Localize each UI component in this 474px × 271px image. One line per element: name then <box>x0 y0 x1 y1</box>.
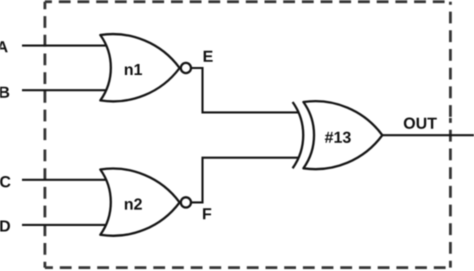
NOR gate n2 body <box>100 169 179 236</box>
wire E from n1 to xor <box>190 68 299 112</box>
XOR gate #13 body <box>303 101 382 169</box>
dashed boundary box left edge lower part <box>44 144 47 268</box>
wire D input <box>22 224 107 226</box>
wire B input <box>22 89 107 91</box>
NOR gate n1 inversion bubble <box>181 63 191 73</box>
dashed boundary box bottom edge <box>45 266 451 269</box>
dashed boundary box right edge lower part <box>449 118 452 268</box>
wire F from n2 to xor <box>190 158 299 203</box>
label n2 <box>125 198 142 209</box>
dashed boundary box right edge upper part <box>449 2 452 118</box>
label n1 <box>125 64 142 75</box>
label C <box>0 176 10 187</box>
label OUT <box>404 118 437 129</box>
wire A input <box>22 45 107 47</box>
label A <box>0 41 8 52</box>
label D <box>0 220 10 231</box>
XOR gate #13 leading arc <box>293 102 304 168</box>
label #13 <box>325 132 351 143</box>
dashed boundary box left edge upper part <box>44 2 47 144</box>
dashed boundary box top edge <box>45 0 451 3</box>
NOR gate n2 inversion bubble <box>181 197 191 207</box>
wire OUT output <box>382 134 474 136</box>
wire C input <box>22 179 107 181</box>
label E <box>204 51 213 62</box>
NOR gate n1 body <box>100 34 179 101</box>
label F <box>203 208 211 219</box>
label B <box>0 87 9 98</box>
